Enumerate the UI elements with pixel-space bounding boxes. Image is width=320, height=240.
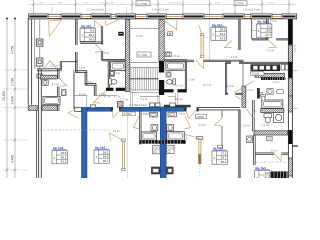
stove kv4 bbox=[167, 145, 175, 153]
svg-text:34.8: 34.8 bbox=[103, 155, 109, 159]
svg-text:2.2 м²: 2.2 м² bbox=[79, 92, 86, 96]
svg-text:4.0 м²: 4.0 м² bbox=[231, 55, 238, 59]
twin bath left wall bbox=[139, 111, 141, 144]
door swing kv4 bath bbox=[185, 116, 191, 129]
mid wall right section bbox=[199, 106, 241, 108]
svg-text:2.1 м²: 2.1 м² bbox=[262, 123, 269, 127]
door swing kv7 top bbox=[94, 21, 101, 28]
kv2 lower wall bbox=[226, 61, 290, 63]
svg-text:4.750: 4.750 bbox=[10, 46, 14, 54]
svg-text:19.8: 19.8 bbox=[265, 29, 271, 33]
washer small kv3 bbox=[247, 136, 253, 143]
svg-text:1.8 м²(1.5 м²): 1.8 м²(1.5 м²) bbox=[243, 8, 260, 12]
door gap kv7 vertical bbox=[75, 45, 78, 52]
small wall y95 bbox=[75, 95, 88, 97]
svg-text:4.460: 4.460 bbox=[10, 155, 14, 163]
top wall sill line bbox=[30, 15, 295, 17]
left dimension line inner bbox=[14, 19, 16, 179]
toilet kv3 bbox=[264, 114, 272, 118]
toilet kv7 bbox=[109, 79, 112, 85]
svg-text:43.9: 43.9 bbox=[220, 36, 226, 40]
door gap kv3 room bbox=[274, 152, 282, 156]
kitchen counter kv2 bbox=[251, 64, 281, 71]
kv3 small sink bbox=[277, 90, 284, 94]
stair treads bbox=[130, 68, 132, 91]
kv3 kitchen band bottom bbox=[255, 171, 287, 178]
left dimension line outer bbox=[6, 19, 8, 179]
washbasin kv1 bbox=[165, 52, 171, 56]
kv3 stove box bbox=[267, 136, 273, 140]
old wall above blue C bbox=[164, 105, 191, 108]
svg-text:1.560: 1.560 bbox=[38, 3, 44, 5]
blue wall D vertical bbox=[160, 107, 166, 178]
svg-text:17.2: 17.2 bbox=[221, 151, 227, 155]
toilet kv6 bbox=[62, 90, 67, 96]
svg-text:2.1 м²: 2.1 м² bbox=[247, 89, 253, 92]
svg-text:2.4 м²: 2.4 м² bbox=[243, 124, 250, 128]
axis line x127 lower bbox=[126, 112, 128, 178]
svg-text:11.2 м²: 11.2 м² bbox=[120, 97, 129, 101]
svg-text:С.7.200 ±1.4 м²: С.7.200 ±1.4 м² bbox=[130, 104, 148, 107]
panel right of core bbox=[168, 32, 173, 36]
kv7 zigzag wall v2 bbox=[93, 85, 95, 96]
door swing kv3 room bbox=[274, 154, 281, 161]
stair upper landing line bbox=[130, 27, 159, 29]
right wall hatch 2 bbox=[270, 78, 312, 96]
svg-text:У.2.100: У.2.100 bbox=[252, 74, 260, 76]
bathtub kv5 bbox=[141, 132, 156, 140]
washbasin kv7 bbox=[110, 71, 115, 76]
blue wall B horizontal bbox=[87, 107, 111, 111]
svg-text:У.1.000: У.1.000 bbox=[124, 113, 133, 116]
stair core left wall hatched bbox=[53, 20, 202, 92]
kv7 door gap bbox=[101, 45, 105, 52]
svg-text:14.2 м²: 14.2 м² bbox=[226, 84, 235, 88]
hatched wall kv2 bath bbox=[251, 73, 290, 77]
kv6 bath door gap bbox=[57, 79, 60, 87]
kv6 upper wall right part bbox=[60, 61, 77, 63]
door swing kv6 kitchen bbox=[44, 61, 57, 69]
kv1 bath right wall bbox=[184, 61, 186, 90]
twin bath bottom band bbox=[140, 140, 186, 143]
svg-text:2.0 м²: 2.0 м² bbox=[271, 149, 278, 152]
toilet kv4 bbox=[167, 125, 174, 131]
svg-text:2.2 м²: 2.2 м² bbox=[176, 83, 183, 87]
svg-text:4.3 м²: 4.3 м² bbox=[273, 81, 280, 84]
bathtub kv7 bbox=[111, 62, 126, 71]
electrical panel bbox=[118, 32, 123, 36]
door gap corridor right bbox=[194, 59, 203, 62]
svg-text:11.7 м²: 11.7 м² bbox=[203, 83, 211, 87]
door swing x221 bbox=[215, 119, 222, 126]
door swing kv2 lower bbox=[268, 40, 276, 48]
svg-text:11.2 м²: 11.2 м² bbox=[174, 97, 183, 101]
kv3 vent band bbox=[261, 77, 285, 80]
door swing window right of core bbox=[163, 20, 177, 30]
kv3 room wall vertical bbox=[253, 135, 255, 165]
svg-text:1.5 м²: 1.5 м² bbox=[86, 81, 93, 84]
svg-text:С.7700: С.7700 bbox=[137, 2, 147, 6]
svg-text:42.3: 42.3 bbox=[61, 160, 67, 164]
svg-text:34.7: 34.7 bbox=[221, 156, 227, 160]
svg-text:16.2: 16.2 bbox=[103, 150, 109, 154]
svg-text:2.2700: 2.2700 bbox=[235, 2, 244, 6]
left dim extension lines bbox=[3, 69, 28, 71]
entry label box 2 bbox=[196, 114, 207, 119]
blue wall A vertical bbox=[82, 107, 88, 178]
balcony door kv1 bbox=[200, 35, 202, 56]
svg-text:36.7: 36.7 bbox=[103, 159, 109, 163]
bathtub kv3 bbox=[262, 100, 283, 108]
kv7 zigzag wall v1 bbox=[84, 72, 86, 85]
sink kv4 bbox=[168, 112, 177, 117]
door swing corridor kv2 bbox=[233, 81, 254, 102]
bathtub kv4 bbox=[167, 132, 185, 141]
kv3 thin line y162 bbox=[256, 161, 289, 163]
svg-text:19.6: 19.6 bbox=[61, 151, 67, 155]
svg-text:6.9 м²: 6.9 м² bbox=[102, 51, 109, 55]
svg-text:23.800: 23.800 bbox=[2, 91, 6, 101]
kv6 hatch blocks bottom bbox=[24, 106, 44, 111]
kv6 top wall bbox=[37, 68, 60, 70]
kv2 vert wall bbox=[224, 63, 226, 94]
door swing kv3 bath bbox=[247, 109, 256, 119]
kv7 inner wall bbox=[100, 26, 102, 60]
right wall hatch 3 bbox=[272, 96, 310, 112]
vent label box top right bbox=[234, 1, 247, 5]
svg-text:С.7.300: С.7.300 bbox=[138, 54, 147, 57]
marker boxes on blue C bbox=[149, 103, 154, 107]
left dim ticks bbox=[14, 69, 17, 72]
svg-text:1.8 м²(1.4 м²): 1.8 м²(1.4 м²) bbox=[168, 1, 181, 4]
svg-text:8.6: 8.6 bbox=[90, 29, 94, 33]
svg-text:(ОГ-4): (ОГ-4) bbox=[293, 44, 297, 52]
wall x238 vertical bbox=[238, 110, 240, 178]
stair core right wall hatched bbox=[117, 20, 207, 62]
kitchen sink kv4 bbox=[167, 167, 174, 174]
svg-text:3.665: 3.665 bbox=[268, 3, 274, 5]
svg-text:6.2: 6.2 bbox=[265, 171, 269, 175]
hatch wall x243 bbox=[221, 86, 269, 107]
top short grid ticks bbox=[51, 7, 53, 14]
kv3 room wall horizontal bbox=[255, 152, 288, 154]
svg-text:1.6 м²: 1.6 м² bbox=[178, 112, 185, 116]
door swing top left bbox=[49, 20, 62, 37]
kitchen sink kv5 bbox=[151, 167, 160, 174]
balcony door left bbox=[121, 141, 123, 170]
svg-text:8.2 м²: 8.2 м² bbox=[270, 20, 277, 23]
bathtub kv6 bbox=[43, 96, 60, 104]
blue wall C horizontal bbox=[121, 107, 185, 111]
svg-text:4.2 м²: 4.2 м² bbox=[113, 129, 120, 133]
stair elevation label box bbox=[136, 1, 150, 6]
right wall ticks bbox=[292, 70, 297, 72]
wall x221 end cap bbox=[218, 145, 223, 148]
top axis grid lines bbox=[33, 0, 35, 14]
old wall stub left of blue bbox=[75, 107, 82, 111]
svg-text:34.0: 34.0 bbox=[89, 37, 95, 41]
svg-text:6.1: 6.1 bbox=[267, 24, 271, 28]
door swing upper right corridor bbox=[196, 61, 204, 69]
kv7 bath left wall bbox=[107, 61, 109, 89]
right wall black 1 bbox=[288, 19, 292, 45]
marker box on blue wall bbox=[90, 105, 95, 108]
top wall outer line bbox=[28, 13, 297, 15]
svg-text:1.940: 1.940 bbox=[10, 96, 14, 104]
vent box 2 bbox=[36, 58, 43, 66]
left lower wall bbox=[38, 69, 40, 179]
kv7 bath top wall bbox=[102, 59, 126, 61]
door swing corridor C gap bbox=[112, 110, 121, 118]
toilet kv1 bbox=[173, 79, 176, 85]
svg-text:26.1: 26.1 bbox=[89, 33, 95, 37]
svg-text:18.1: 18.1 bbox=[263, 175, 269, 178]
svg-text:36.0: 36.0 bbox=[221, 160, 227, 164]
svg-text:1.500: 1.500 bbox=[83, 3, 89, 5]
kv3 washbasin bbox=[267, 89, 273, 95]
right wall black 2 bbox=[288, 62, 292, 78]
old partition stub bbox=[175, 93, 177, 105]
kv7 zigzag wall h2 bbox=[85, 83, 96, 85]
svg-text:18.6: 18.6 bbox=[220, 28, 226, 32]
kv3 hatch under tub bbox=[257, 109, 290, 113]
door gap y93 wall bbox=[228, 93, 235, 96]
kv7 bath door swing bbox=[101, 91, 106, 97]
door swing corridor right gap bbox=[186, 110, 197, 119]
wall x221 vertical bbox=[220, 110, 222, 147]
balcony door right bbox=[198, 139, 200, 165]
stair landing lines bbox=[130, 62, 159, 64]
windows on top wall bbox=[29, 14, 49, 19]
door swing balcony left bbox=[110, 133, 124, 141]
door gap kv2 lower bbox=[231, 62, 239, 65]
door gap kv2 bbox=[268, 38, 276, 41]
door swing balcony right bbox=[186, 135, 200, 141]
washing machine kv3 bbox=[274, 113, 284, 123]
stair core left wall thin lower bbox=[130, 92, 132, 108]
kv6 bath hatch band bbox=[37, 75, 63, 79]
svg-text:1.5 м²: 1.5 м² bbox=[188, 78, 195, 82]
svg-text:39.2: 39.2 bbox=[220, 32, 226, 36]
kv7 zigzag wall h1 bbox=[75, 70, 87, 72]
kv3 dark post bbox=[257, 88, 260, 98]
door swing kv6 entry top bbox=[60, 79, 67, 86]
svg-text:2.2 м²(1.9 м²): 2.2 м²(1.9 м²) bbox=[87, 8, 104, 12]
old wall y96 segment a bbox=[140, 95, 160, 97]
right wall black 3 bbox=[288, 130, 292, 144]
vent box 3 bbox=[37, 74, 42, 78]
top dimension line bbox=[29, 4, 296, 6]
door swing kv6 hall bbox=[68, 108, 79, 119]
svg-text:4.6 м²: 4.6 м² bbox=[267, 49, 274, 53]
svg-text:11.1 м²: 11.1 м² bbox=[50, 63, 59, 67]
door swing window left of core bbox=[105, 20, 119, 26]
right wall hatch 1 bbox=[271, 45, 310, 62]
svg-text:3.3 м²: 3.3 м² bbox=[136, 34, 143, 38]
kv6 bath right wall bbox=[57, 69, 59, 111]
old wall y96 segment b bbox=[168, 95, 176, 97]
axis line x209 bbox=[209, 19, 211, 61]
svg-text:1.3 м²(1.1 м²): 1.3 м²(1.1 м²) bbox=[100, 1, 113, 4]
bathtub kv1 bbox=[166, 62, 185, 71]
right wall hatch 4 bbox=[270, 158, 312, 176]
kv7 corridor bottom wall bbox=[80, 41, 103, 43]
svg-text:2.780: 2.780 bbox=[10, 78, 14, 86]
wall kv7 right vertical bbox=[75, 19, 77, 72]
svg-text:3.6 м²: 3.6 м² bbox=[79, 66, 86, 69]
top dimension ticks bbox=[32, 3, 35, 6]
svg-text:2.1 м²: 2.1 м² bbox=[144, 111, 151, 115]
svg-text:3.3 м²: 3.3 м² bbox=[113, 71, 120, 75]
wall x73 vertical bbox=[73, 70, 75, 109]
balcony door swing kv1 bbox=[199, 25, 202, 35]
svg-text:3.060: 3.060 bbox=[215, 3, 221, 5]
hatch piece left of core bottom bbox=[112, 102, 131, 108]
kitchen boxes kv2 bbox=[281, 65, 285, 71]
left inner shaft wall bbox=[34, 19, 36, 69]
washbasin kv1 lower bbox=[166, 72, 171, 77]
svg-text:1.8 м²(1.5 м²): 1.8 м²(1.5 м²) bbox=[152, 8, 169, 12]
dashed line apartment 6 bbox=[40, 129, 112, 131]
svg-text:1.7 м²: 1.7 м² bbox=[99, 92, 106, 96]
kv7 bath divider bbox=[108, 75, 114, 77]
left lower wall inner bbox=[36, 111, 38, 179]
wall x243 upper bbox=[242, 64, 244, 87]
toilet kv5 bbox=[151, 125, 158, 131]
stair flight border bbox=[130, 67, 159, 69]
vent box 1 bbox=[36, 39, 43, 46]
kv3 hatched wall low bbox=[250, 131, 294, 135]
corridor top wall right bbox=[187, 59, 244, 61]
toilet kv3 upper bbox=[261, 94, 266, 97]
svg-text:У.2000: У.2000 bbox=[196, 116, 204, 119]
kv1 bath bottom wall bbox=[164, 89, 174, 92]
door swing kv2 closet bbox=[225, 41, 233, 48]
left exterior wall bbox=[27, 19, 29, 105]
sink kv5 bbox=[150, 112, 158, 117]
svg-text:27.7: 27.7 bbox=[265, 33, 271, 37]
stair core right wall thin lower bbox=[157, 95, 159, 107]
svg-text:3.8 м²: 3.8 м² bbox=[198, 123, 205, 127]
old wall A to zigzag bbox=[73, 72, 75, 107]
svg-text:4.6 м²: 4.6 м² bbox=[173, 54, 180, 58]
door swing kv7 corridor bbox=[95, 44, 102, 53]
right exterior wall lines bbox=[287, 19, 289, 179]
stair core right wall black bbox=[159, 61, 164, 73]
old wall above blue A bbox=[86, 96, 88, 108]
svg-text:1.3 м²: 1.3 м² bbox=[140, 97, 147, 101]
stair center rail bbox=[130, 78, 159, 80]
wall y93 horizontal bbox=[225, 92, 244, 94]
top wall inner line bbox=[28, 18, 297, 20]
door frame stubs at blue gaps bbox=[111, 107, 113, 111]
door swing kv5 bath bbox=[134, 116, 140, 129]
kv1 kv2 divider wall bbox=[238, 19, 240, 51]
kv2 closet wall bbox=[251, 19, 253, 40]
kv1 bath top wall bbox=[164, 59, 187, 61]
svg-text:4.1 м²: 4.1 м² bbox=[52, 82, 59, 86]
door gap x221 bbox=[221, 118, 224, 126]
svg-text:40.3: 40.3 bbox=[61, 155, 67, 159]
kv2 room bottom wall bbox=[252, 38, 289, 40]
svg-text:3.665: 3.665 bbox=[57, 3, 63, 5]
door swing at y95 wall bbox=[93, 96, 101, 103]
label box below blue bbox=[123, 112, 136, 116]
washbasin kv6 bbox=[42, 80, 48, 85]
kv3 bath left wall bbox=[252, 100, 254, 132]
stove kv5 bbox=[153, 146, 161, 154]
kv7 bath bottom wall bbox=[106, 88, 114, 91]
